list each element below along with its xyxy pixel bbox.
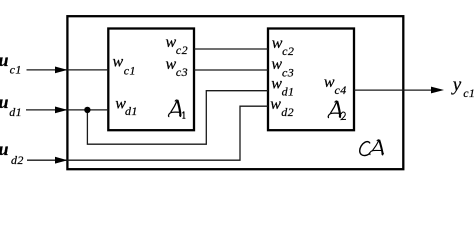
svg-text:u: u <box>0 139 9 159</box>
svg-text:d1: d1 <box>9 105 22 119</box>
svg-text:u: u <box>0 50 9 70</box>
svg-text:c3: c3 <box>176 65 188 79</box>
svg-text:d2: d2 <box>11 153 24 167</box>
svg-text:w: w <box>166 34 177 51</box>
svg-text:w: w <box>270 96 281 113</box>
svg-text:c2: c2 <box>176 43 188 57</box>
svg-text:c1: c1 <box>10 63 22 77</box>
svg-text:w: w <box>166 56 177 73</box>
svg-text:d2: d2 <box>281 105 294 119</box>
svg-text:w: w <box>271 76 282 93</box>
svg-text:w: w <box>324 74 335 91</box>
svg-text:c2: c2 <box>282 44 294 58</box>
svg-text:c1: c1 <box>463 86 474 100</box>
svg-text:u: u <box>0 92 9 112</box>
svg-text:c4: c4 <box>335 83 347 97</box>
svg-text:c3: c3 <box>282 65 294 79</box>
svg-text:w: w <box>113 54 124 71</box>
svg-text:w: w <box>271 56 282 73</box>
svg-text:d1: d1 <box>125 104 138 118</box>
svg-text:d1: d1 <box>282 84 295 98</box>
svg-text:y: y <box>451 74 462 95</box>
svg-text:c1: c1 <box>124 63 136 77</box>
